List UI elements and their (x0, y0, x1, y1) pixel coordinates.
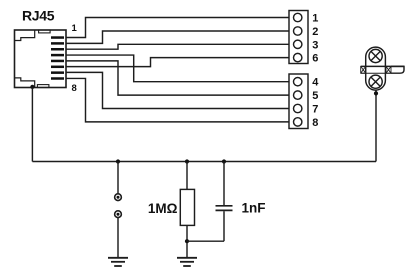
RJ45 connector body (15, 30, 67, 88)
X1 terminal labels 1 2 3 6 (312, 13, 318, 65)
node D (resistor/capacitor bottom junction) (185, 239, 189, 243)
svg-text:1nF: 1nF (242, 201, 266, 216)
wire pin2 to terminal 2 (66, 31, 289, 43)
node C (bus to capacitor) (222, 159, 226, 163)
svg-text:1MΩ: 1MΩ (148, 201, 178, 216)
svg-text:6: 6 (312, 53, 318, 65)
wire capacitor bottom to node D (187, 240, 224, 242)
wire pin3 to terminal 3 (66, 44, 289, 49)
wire from arrester to bus (375, 90, 377, 161)
ground bus wire (32, 161, 376, 163)
RJ45 bottom key notch (37, 85, 49, 88)
F2 right tab (391, 66, 404, 73)
terminal block X1 (pins 1,2,3,6) (289, 11, 308, 64)
svg-text:8: 8 (312, 117, 318, 129)
svg-text:3: 3 (312, 39, 318, 51)
svg-text:5: 5 (312, 90, 318, 102)
F2 terminal dot (374, 91, 378, 95)
ground symbol left (108, 258, 128, 266)
shield pin junction dot on RJ45 (30, 85, 34, 89)
RJ45 top key notch (39, 30, 51, 33)
svg-text:2: 2 (312, 26, 318, 38)
svg-text:8: 8 (72, 83, 77, 94)
ground symbol middle (177, 258, 197, 266)
F2 upper electrode (369, 49, 382, 62)
node B (bus to resistor) (185, 159, 189, 163)
label RJ45 (22, 8, 55, 24)
svg-text:1: 1 (72, 23, 78, 34)
wire pin7 to terminal 7 (66, 72, 289, 108)
svg-text:4: 4 (312, 77, 319, 89)
surge arrester F2 capsule (361, 47, 404, 90)
F2 right mounting pad (386, 66, 391, 73)
RJ45 jack opening profile (15, 30, 35, 88)
pin label 1 (72, 23, 78, 34)
shield wire down from RJ45 (31, 88, 33, 162)
wire pin1 to terminal 1 (66, 18, 289, 38)
RJ45 pin contacts 1-8 (51, 36, 64, 79)
pin label 8 (72, 83, 77, 94)
gas discharge tube F1 (115, 162, 122, 258)
C1 value label 1nF (242, 201, 266, 216)
terminal block X2 (pins 4,5,7,8) (289, 74, 308, 129)
R1 value label 1MΩ (148, 201, 178, 216)
svg-text:RJ45: RJ45 (22, 8, 55, 24)
X2 terminal labels 4 5 7 8 (312, 77, 319, 129)
resistor R1 (180, 162, 194, 258)
svg-text:1: 1 (312, 13, 318, 25)
svg-text:7: 7 (312, 104, 318, 116)
wire pin8 to terminal 8 (66, 78, 289, 121)
capacitor C1 (216, 162, 233, 242)
wire pin4 to terminal 4 (66, 55, 289, 82)
F2 left mounting pad (361, 66, 366, 73)
F2 lower electrode (369, 75, 382, 88)
wire pin6 to terminal 6 (66, 58, 289, 67)
node A (bus to GDT) (116, 159, 120, 163)
wire pin5 to terminal 5 (66, 61, 289, 95)
